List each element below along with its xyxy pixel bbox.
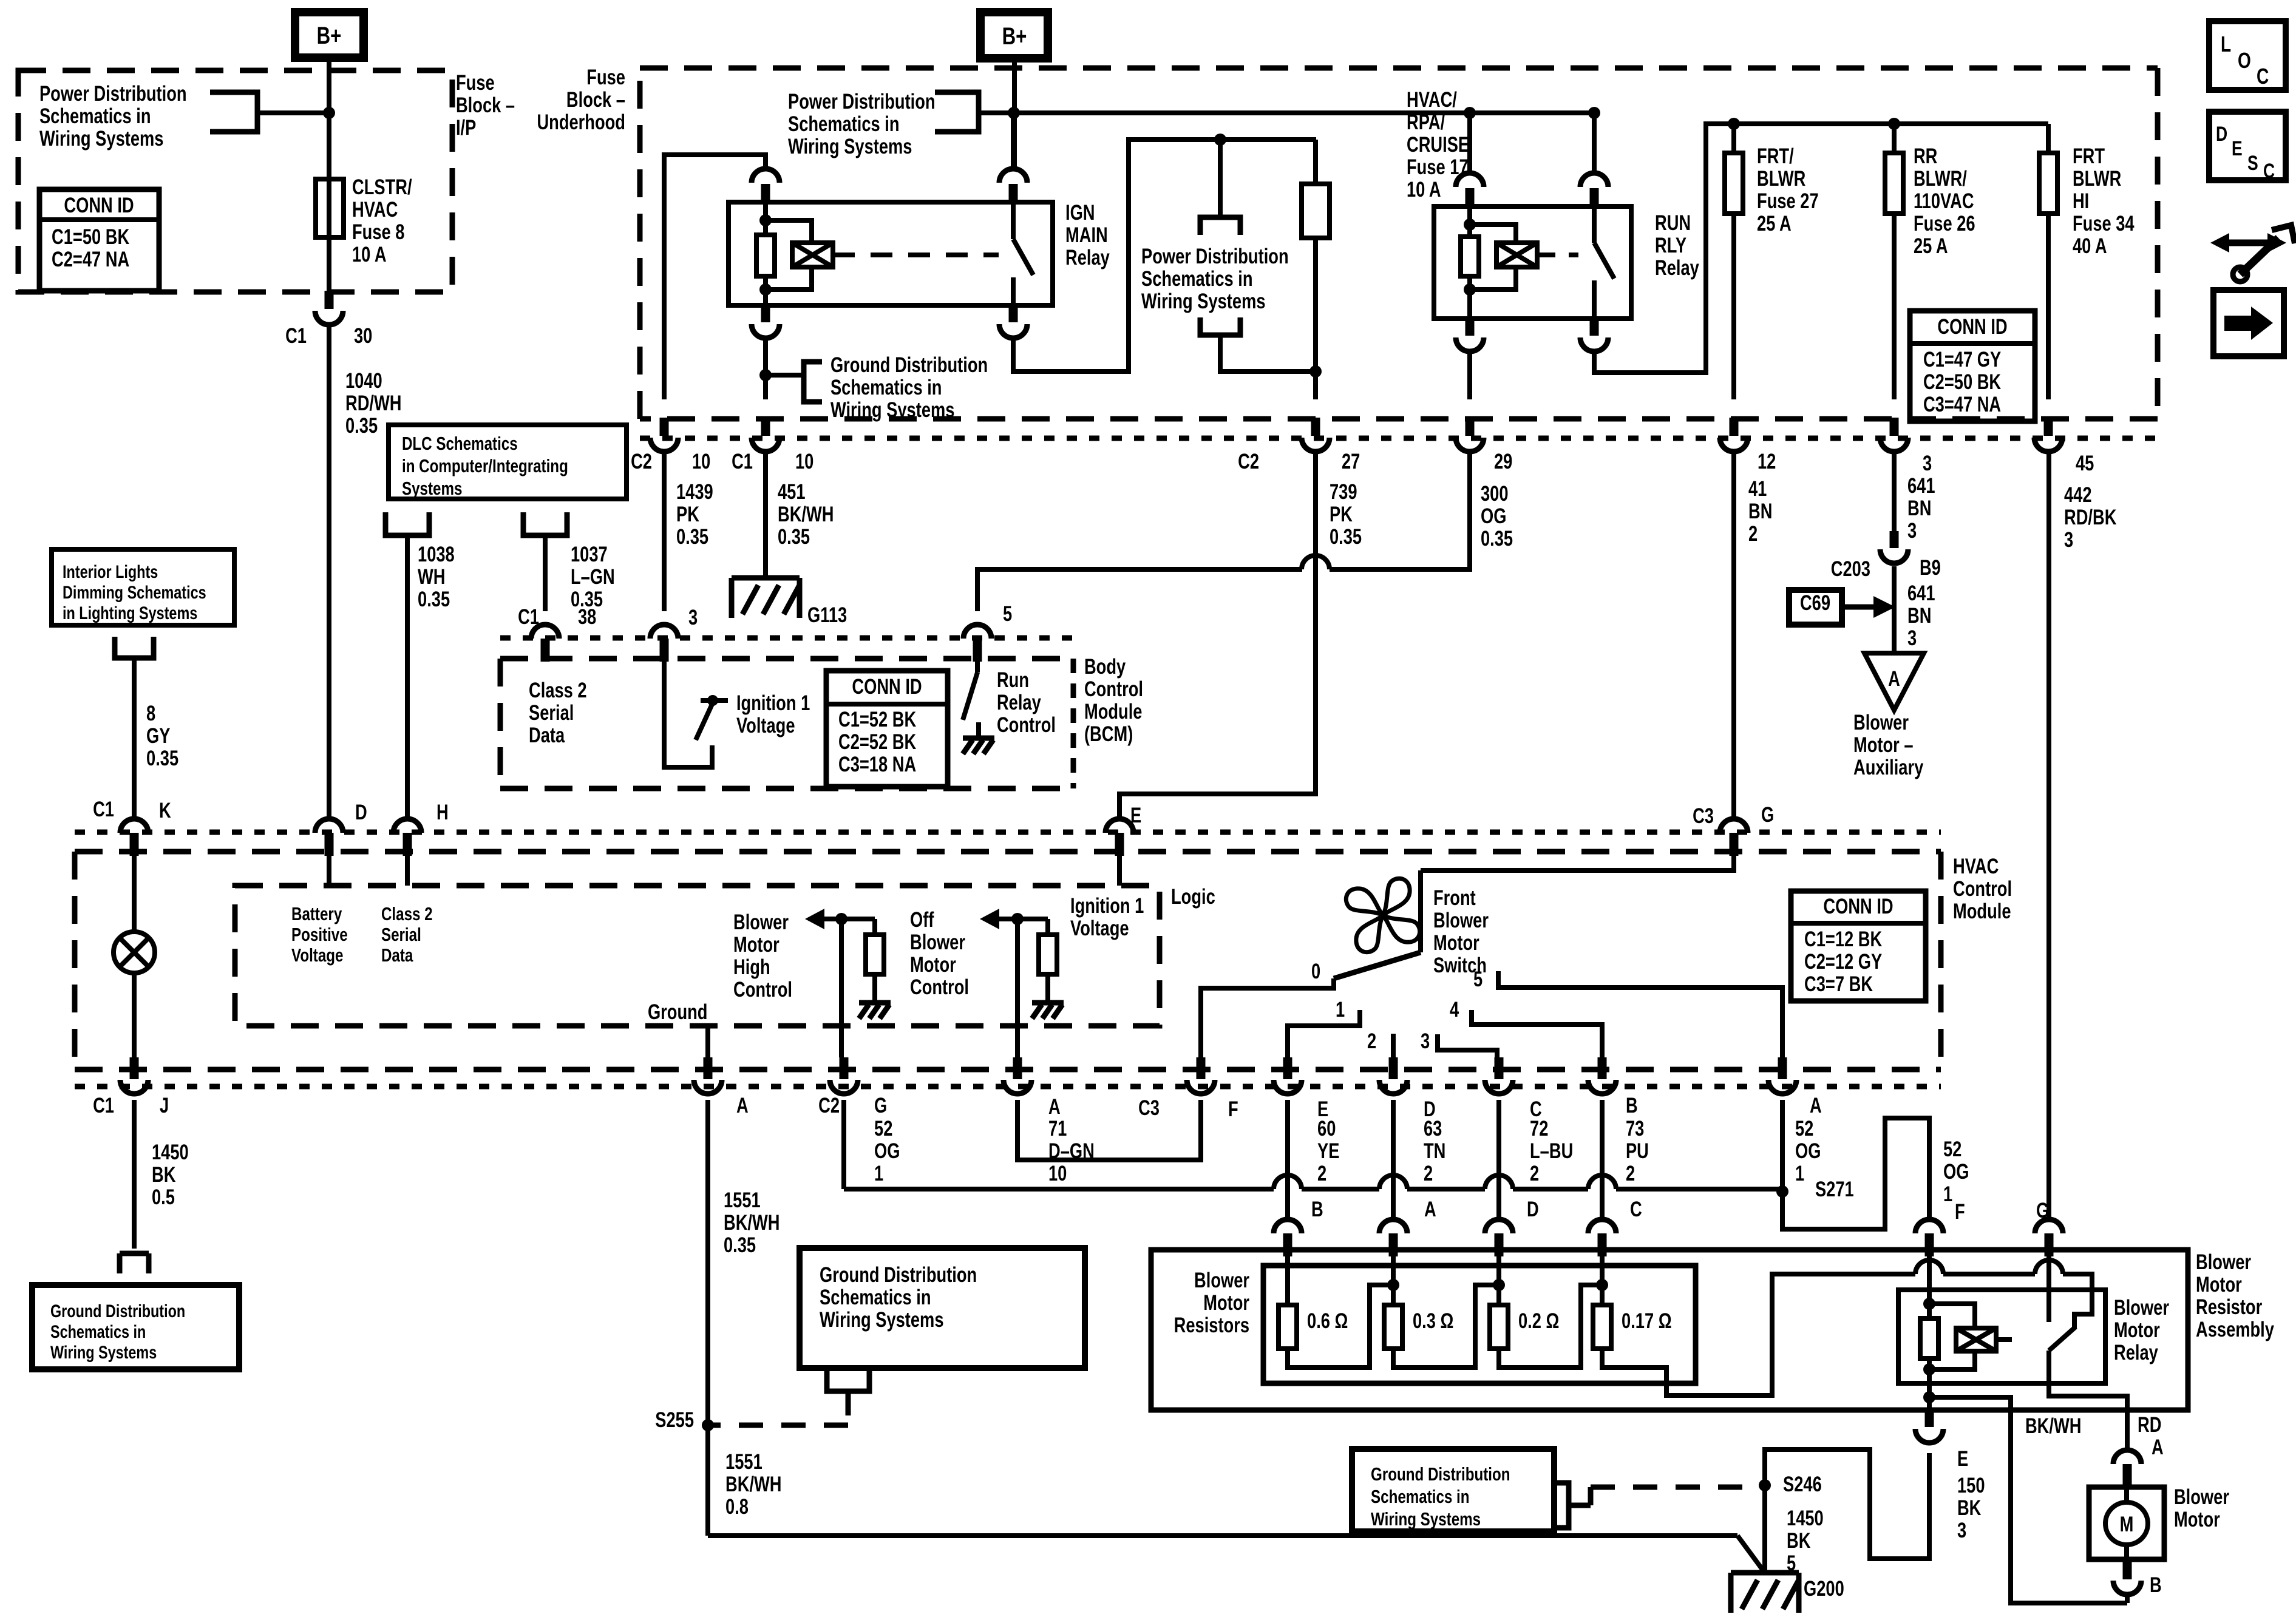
svg-text:C: C: [2257, 64, 2269, 89]
svg-text:1038: 1038: [418, 543, 455, 566]
svg-text:Ground Distribution: Ground Distribution: [1371, 1463, 1510, 1485]
wire 1439 PK to BCM pin 3: [662, 451, 667, 611]
svg-text:1450: 1450: [152, 1141, 189, 1164]
svg-text:C1=12 BK: C1=12 BK: [1804, 927, 1882, 951]
svg-text:Blower: Blower: [2196, 1250, 2251, 1274]
wire A3 to S271: [1780, 1100, 1785, 1189]
bracket interior lights: [115, 637, 154, 658]
wire pin E to G200: [1765, 1449, 1929, 1573]
svg-text:Blower: Blower: [1433, 909, 1489, 932]
svg-text:WH: WH: [418, 565, 445, 589]
svg-text:Fuse 26: Fuse 26: [1914, 212, 1975, 236]
HVAC pin G top: [1720, 819, 1748, 833]
svg-text:Blower: Blower: [2174, 1485, 2229, 1509]
fuse 26 RR BLWR/110VAC: [1888, 118, 1900, 130]
svg-text:B: B: [2150, 1573, 2162, 1597]
ground G200: [1731, 1570, 1799, 1576]
svg-text:M: M: [2120, 1513, 2134, 1536]
BCM pin 3: [650, 625, 678, 639]
node junction B+ bus: [1008, 107, 1020, 119]
svg-text:150: 150: [1957, 1474, 1985, 1497]
node S246: [1759, 1479, 1771, 1491]
svg-text:Fuse 8: Fuse 8: [352, 220, 404, 244]
bus hook at 2295: [1379, 1175, 1407, 1189]
pin C1-30 connector: [325, 291, 334, 309]
svg-text:BK/WH: BK/WH: [725, 1473, 781, 1496]
svg-text:High: High: [733, 955, 770, 979]
svg-text:BLWR/: BLWR/: [1914, 167, 1967, 191]
svg-text:0.35: 0.35: [345, 414, 378, 438]
svg-text:Schematics in: Schematics in: [830, 376, 942, 399]
bus extension to fuses 26/34: [1706, 121, 2048, 126]
svg-text:1: 1: [1336, 998, 1345, 1022]
svg-text:3: 3: [1923, 452, 1932, 475]
svg-text:Logic: Logic: [1171, 885, 1215, 909]
wire 1040 RD/WH to HVAC pin D: [327, 325, 331, 819]
wire S271 to resistor asm F: [1782, 1118, 1929, 1229]
IGN relay coil pin top: [761, 184, 770, 202]
svg-text:I/P: I/P: [456, 116, 476, 140]
svg-text:10: 10: [692, 450, 710, 473]
svg-text:1: 1: [1943, 1182, 1952, 1206]
svg-text:0.35: 0.35: [146, 747, 178, 770]
svg-text:0.6 Ω: 0.6 Ω: [1307, 1309, 1348, 1333]
blower motor relay box: [1898, 1290, 2105, 1383]
HVAC row1 pin G: [840, 1057, 849, 1079]
svg-text:FRT/: FRT/: [1757, 144, 1794, 168]
svg-text:HVAC: HVAC: [352, 198, 398, 222]
svg-text:C2: C2: [631, 450, 652, 473]
RUN RLY relay box: [1434, 206, 1631, 319]
resistor asm pin F: [1915, 1219, 1943, 1233]
svg-text:2: 2: [1424, 1162, 1433, 1185]
svg-text:S255: S255: [655, 1408, 694, 1432]
svg-text:OG: OG: [1481, 504, 1506, 528]
svg-text:B: B: [1626, 1094, 1638, 1117]
svg-text:3: 3: [1907, 519, 1917, 543]
svg-text:Schematics in: Schematics in: [39, 104, 151, 128]
BCM dashed box: [500, 659, 1073, 788]
svg-text:Class 2: Class 2: [529, 679, 587, 702]
svg-text:0.35: 0.35: [571, 588, 603, 611]
svg-text:(BCM): (BCM): [1084, 722, 1133, 746]
svg-text:Blower: Blower: [2114, 1296, 2169, 1320]
svg-text:RR: RR: [1914, 144, 1938, 168]
bus hook at 2469: [1485, 1175, 1513, 1189]
svg-text:Control: Control: [910, 975, 969, 999]
wire E into logic: [1117, 855, 1122, 886]
svg-text:Ignition 1: Ignition 1: [1070, 894, 1144, 918]
svg-text:PK: PK: [1330, 503, 1353, 526]
svg-text:10 A: 10 A: [352, 243, 387, 266]
svg-text:Dimming Schematics: Dimming Schematics: [63, 582, 206, 602]
svg-text:Motor: Motor: [1203, 1291, 1249, 1315]
wire RD to motor pin A: [2125, 1410, 2130, 1450]
svg-text:2: 2: [1748, 522, 1758, 546]
wire 41 BN to HVAC G: [1731, 451, 1736, 819]
wire ground output: [705, 1026, 710, 1057]
svg-text:C1: C1: [93, 1094, 114, 1117]
RUN relay actuator dashed: [1537, 253, 1578, 257]
svg-text:110VAC: 110VAC: [1914, 189, 1974, 213]
wires row1 to row2: [1285, 1100, 1290, 1219]
pin 27 underhood: [1311, 418, 1320, 436]
svg-text:IGN: IGN: [1065, 201, 1095, 225]
CONN ID table HVAC: [1791, 891, 1926, 1001]
svg-text:Relay: Relay: [1655, 256, 1699, 280]
svg-text:C2=12 GY: C2=12 GY: [1804, 950, 1882, 974]
svg-text:Resistor: Resistor: [2196, 1295, 2262, 1319]
Ground Distribution box center: [800, 1248, 1085, 1368]
svg-text:A: A: [736, 1094, 749, 1117]
svg-text:Assembly: Assembly: [2196, 1318, 2274, 1341]
blower motor resistor assembly box: [1151, 1250, 2188, 1410]
svg-text:300: 300: [1481, 482, 1509, 506]
svg-text:Blower: Blower: [1194, 1269, 1249, 1292]
svg-text:Voltage: Voltage: [1070, 917, 1129, 940]
Ground Distribution box right: [1352, 1449, 1554, 1531]
relay coil low + BK/WH branch: [1927, 1383, 1932, 1410]
svg-text:Motor: Motor: [1433, 931, 1479, 955]
RUN relay switch: [1592, 206, 1597, 243]
svg-text:Battery: Battery: [291, 903, 342, 924]
dashed splice ref S255: [708, 1391, 848, 1425]
svg-text:RLY: RLY: [1655, 234, 1686, 257]
svg-text:52: 52: [1795, 1117, 1813, 1141]
svg-text:B: B: [1311, 1198, 1323, 1221]
svg-text:52: 52: [874, 1117, 892, 1141]
wire from B+ to fuse 8: [327, 58, 331, 179]
off-page bracket Ground Distribution: [766, 373, 804, 378]
svg-text:1551: 1551: [725, 1450, 763, 1474]
fuse 34 FRT BLWR HI: [2046, 124, 2051, 153]
IGN relay switch: [1011, 202, 1016, 239]
CONN ID table BCM: [826, 671, 948, 787]
HVAC module dashed box: [75, 852, 1941, 1070]
svg-text:25 A: 25 A: [1757, 212, 1792, 236]
wire B+ to bus: [1012, 57, 1017, 168]
BCM pin 38: [531, 625, 559, 639]
svg-text:E: E: [1130, 804, 1141, 827]
HVAC row1 pin A3: [1778, 1057, 1787, 1079]
contact 5: [1498, 971, 1782, 1057]
wire 300 OG run relay control: [1330, 451, 1470, 569]
svg-text:E: E: [2232, 137, 2243, 160]
fan icon: [1346, 878, 1419, 952]
svg-text:3: 3: [1907, 626, 1917, 650]
svg-text:Ground Distribution: Ground Distribution: [830, 353, 988, 377]
svg-text:3: 3: [1957, 1519, 1966, 1542]
svg-text:BK/WH: BK/WH: [2025, 1414, 2081, 1438]
underhood connector dotted row: [640, 436, 2158, 441]
svg-text:Ignition 1: Ignition 1: [736, 691, 810, 715]
B+ bus wire: [1014, 110, 1594, 115]
svg-text:1040: 1040: [345, 369, 382, 393]
Fuse Block - Underhood dashed box: [640, 68, 2158, 419]
blower high control output: [805, 909, 824, 929]
HVAC pin E: [1106, 819, 1133, 833]
svg-text:BN: BN: [1748, 500, 1772, 523]
svg-text:A: A: [1048, 1095, 1061, 1119]
svg-text:CLSTR/: CLSTR/: [352, 175, 412, 199]
power symbol B+ (I/P feed): [295, 12, 364, 58]
svg-text:Schematics in: Schematics in: [1141, 267, 1253, 291]
svg-text:YE: YE: [1317, 1139, 1339, 1163]
svg-text:Systems: Systems: [402, 478, 462, 499]
svg-text:Motor: Motor: [2174, 1508, 2220, 1531]
svg-text:DLC Schematics: DLC Schematics: [402, 433, 518, 454]
svg-text:OG: OG: [1943, 1160, 1969, 1184]
svg-text:Fuse 27: Fuse 27: [1757, 189, 1819, 213]
svg-text:1037: 1037: [571, 543, 608, 566]
svg-text:0.35: 0.35: [676, 525, 708, 549]
svg-text:0.2 Ω: 0.2 Ω: [1518, 1309, 1559, 1333]
bracket below box center: [827, 1368, 869, 1391]
resistor 0.3 ohm: [1391, 1256, 1396, 1305]
svg-text:72: 72: [1530, 1117, 1548, 1141]
svg-text:2: 2: [1530, 1162, 1539, 1185]
svg-text:C3: C3: [1693, 804, 1714, 828]
inner resistor box: [1263, 1266, 1696, 1383]
node junction below fuse 17: [1309, 365, 1322, 378]
bus hook at 2639: [1588, 1175, 1616, 1189]
svg-text:BK/WH: BK/WH: [724, 1211, 779, 1235]
svg-text:Power Distribution: Power Distribution: [39, 82, 187, 106]
svg-text:Data: Data: [381, 944, 413, 966]
svg-text:C3: C3: [1138, 1096, 1160, 1120]
svg-text:0.17 Ω: 0.17 Ω: [1622, 1309, 1672, 1333]
svg-text:HI: HI: [2073, 189, 2089, 213]
switch rotor and blade: [1418, 870, 1423, 952]
DLC Schematics box: [389, 425, 627, 499]
HVAC pin H: [393, 819, 421, 833]
svg-text:Fuse: Fuse: [586, 66, 625, 89]
RUN relay coil circuit: [1464, 219, 1476, 231]
HVAC row1 pin J: [130, 1057, 139, 1079]
svg-text:C2: C2: [818, 1094, 840, 1117]
fuse 17 HVAC/RPA/CRUISE: [1313, 140, 1318, 184]
off blower control output: [980, 909, 999, 929]
IGN MAIN relay box: [729, 202, 1053, 305]
svg-text:H: H: [436, 801, 449, 824]
svg-text:S246: S246: [1783, 1473, 1822, 1496]
svg-text:in Computer/Integrating: in Computer/Integrating: [402, 455, 568, 476]
svg-text:8: 8: [146, 702, 155, 725]
svg-text:BN: BN: [1907, 497, 1931, 520]
svg-text:0: 0: [1311, 960, 1320, 983]
bracket ground dist bottom-left: [120, 1253, 149, 1273]
wire 442 RD/BK down to resistor asm G: [2046, 451, 2051, 1219]
wire C203 to triangle: [1892, 566, 1897, 653]
BCM ignition switch: [664, 661, 712, 767]
svg-text:Power Distribution: Power Distribution: [1141, 245, 1289, 268]
svg-text:10: 10: [1048, 1162, 1067, 1185]
resistor 0.2 output loop: [1499, 1285, 1602, 1368]
svg-text:41: 41: [1748, 477, 1767, 501]
svg-text:2: 2: [1367, 1029, 1376, 1053]
svg-text:A: A: [1888, 667, 1900, 691]
svg-text:B+: B+: [317, 22, 342, 49]
svg-text:MAIN: MAIN: [1065, 223, 1108, 247]
Ground Distribution box bottom-left: [32, 1285, 239, 1369]
contact 0: [1201, 978, 1334, 1057]
svg-text:OG: OG: [874, 1139, 900, 1163]
svg-text:Wiring Systems: Wiring Systems: [1371, 1508, 1481, 1530]
svg-text:RD: RD: [2138, 1413, 2161, 1437]
svg-text:Relay: Relay: [997, 691, 1041, 714]
pin 29 underhood: [1466, 418, 1475, 436]
ground bus to G200: [708, 1533, 1737, 1538]
svg-text:Class 2: Class 2: [381, 903, 433, 924]
bus hook at 2121: [1274, 1175, 1302, 1189]
svg-text:451: 451: [778, 480, 806, 504]
resistor asm pin A: [1379, 1219, 1407, 1233]
IGN relay coil circuit: [759, 214, 772, 226]
svg-text:Relay: Relay: [1065, 246, 1110, 269]
svg-text:1: 1: [874, 1162, 883, 1185]
HVAC pin K: [120, 819, 148, 833]
svg-text:BLWR: BLWR: [1757, 167, 1806, 191]
svg-text:Ground: Ground: [648, 1000, 708, 1024]
fuse 8 CLSTR/HVAC: [316, 179, 344, 237]
HVAC row1 pin A gnd: [704, 1057, 713, 1079]
svg-text:Fuse 34: Fuse 34: [2073, 212, 2135, 236]
svg-text:FRT: FRT: [2073, 144, 2105, 168]
svg-text:C1=52 BK: C1=52 BK: [838, 708, 916, 731]
svg-text:RD/WH: RD/WH: [345, 392, 401, 415]
svg-text:Interior Lights: Interior Lights: [63, 561, 158, 581]
svg-text:Schematics in: Schematics in: [788, 112, 900, 136]
svg-text:Schematics in: Schematics in: [50, 1321, 146, 1341]
svg-text:4: 4: [1450, 998, 1459, 1022]
node junction bus at coil: [1464, 107, 1476, 119]
BCM connector dotted row: [500, 636, 1073, 641]
ground G113: [732, 575, 800, 581]
svg-text:Module: Module: [1953, 900, 2011, 923]
svg-text:10: 10: [795, 450, 813, 473]
node junction fuse17 feed: [1214, 134, 1226, 146]
svg-text:RUN: RUN: [1655, 211, 1691, 235]
relay switch: [2046, 1254, 2051, 1322]
HVAC bottom dotted row: [75, 1084, 1941, 1090]
svg-text:G113: G113: [807, 603, 847, 627]
svg-text:C: C: [1630, 1198, 1642, 1221]
svg-text:739: 739: [1330, 480, 1357, 504]
svg-text:442: 442: [2064, 483, 2092, 507]
svg-text:CRUISE: CRUISE: [1407, 133, 1469, 157]
svg-text:BK/WH: BK/WH: [778, 503, 834, 526]
svg-text:O: O: [2238, 49, 2251, 73]
svg-text:Wiring Systems: Wiring Systems: [830, 398, 954, 422]
svg-text:Power Distribution: Power Distribution: [788, 90, 936, 114]
svg-text:Motor: Motor: [910, 953, 956, 977]
svg-text:71: 71: [1048, 1117, 1067, 1141]
svg-text:3: 3: [2064, 528, 2073, 552]
svg-text:Underhood: Underhood: [537, 110, 625, 134]
svg-text:Motor: Motor: [2196, 1273, 2242, 1297]
switch common feed from G: [1421, 855, 1734, 870]
svg-text:L–GN: L–GN: [571, 565, 615, 589]
CONN ID table (I/P): [39, 189, 159, 291]
svg-text:0.35: 0.35: [418, 588, 450, 611]
BCM pin 5: [963, 625, 991, 639]
svg-text:C1=47 GY: C1=47 GY: [1923, 348, 2001, 371]
IGN relay coil out pin: [761, 304, 770, 322]
contact 2: [1391, 1034, 1396, 1057]
svg-text:PU: PU: [1626, 1139, 1649, 1163]
svg-text:Voltage: Voltage: [291, 944, 343, 966]
svg-text:1439: 1439: [676, 480, 713, 504]
svg-text:PK: PK: [676, 503, 699, 526]
HVAC pin D: [315, 819, 343, 833]
wire 1037 to pin 38: [543, 549, 548, 611]
svg-text:HVAC/: HVAC/: [1407, 88, 1457, 112]
svg-text:27: 27: [1342, 450, 1360, 473]
svg-text:C3=18 NA: C3=18 NA: [838, 753, 916, 776]
svg-text:Wiring Systems: Wiring Systems: [50, 1342, 157, 1362]
svg-text:BK: BK: [1957, 1496, 1982, 1520]
svg-text:Front: Front: [1433, 886, 1476, 910]
svg-text:D: D: [1527, 1198, 1539, 1221]
svg-text:0.35: 0.35: [778, 525, 810, 549]
wire fuse8 to pin 30: [327, 237, 331, 292]
svg-text:C1: C1: [285, 324, 307, 348]
svg-text:45: 45: [2076, 452, 2094, 475]
svg-text:2: 2: [1626, 1162, 1635, 1185]
svg-text:Relay: Relay: [2114, 1341, 2158, 1364]
wire J to ground dist box: [132, 1100, 137, 1249]
icon LOC: [2209, 21, 2286, 90]
wire 641 BN to C203: [1892, 451, 1897, 531]
svg-text:C203: C203: [1831, 557, 1870, 581]
HVAC C1 connector dotted row: [75, 830, 1941, 835]
IGN relay actuator dashed line: [833, 253, 999, 257]
resistor 0.3 output loop: [1393, 1285, 1499, 1368]
svg-text:Voltage: Voltage: [736, 714, 795, 737]
svg-text:A: A: [2152, 1436, 2164, 1459]
BCM run relay control switch: [975, 661, 980, 673]
svg-text:Run: Run: [997, 668, 1029, 692]
svg-text:BK: BK: [152, 1163, 176, 1187]
svg-text:1551: 1551: [724, 1188, 761, 1212]
svg-text:Resistors: Resistors: [1174, 1314, 1249, 1337]
svg-text:Control: Control: [1084, 677, 1143, 701]
svg-text:73: 73: [1626, 1117, 1644, 1141]
blower motor: [2089, 1487, 2164, 1559]
svg-text:F: F: [1955, 1200, 1965, 1224]
svg-text:OG: OG: [1795, 1139, 1821, 1163]
svg-text:Control: Control: [1953, 877, 2012, 901]
svg-text:12: 12: [1758, 450, 1776, 473]
pin 3 underhood: [1890, 418, 1899, 436]
svg-text:Schematics in: Schematics in: [820, 1286, 931, 1309]
svg-text:641: 641: [1907, 581, 1935, 605]
svg-text:Motor: Motor: [733, 933, 779, 957]
svg-text:G: G: [874, 1094, 887, 1117]
wire 451 BK/WH to G113: [763, 451, 768, 578]
svg-text:G: G: [1761, 803, 1774, 827]
svg-text:Motor –: Motor –: [1853, 733, 1914, 757]
node junction on B+ wire: [323, 107, 335, 119]
icon next arrow: [2213, 290, 2284, 356]
svg-text:0.35: 0.35: [1481, 527, 1513, 551]
IGN relay switch pin top: [1009, 184, 1018, 202]
resistor 0.2 ohm: [1496, 1256, 1501, 1305]
wire off/0 connecting A2 and F: [1017, 1100, 1201, 1160]
svg-text:L–BU: L–BU: [1530, 1139, 1573, 1163]
svg-text:CONN ID: CONN ID: [1937, 315, 2007, 339]
resistor asm pin B: [1274, 1219, 1302, 1233]
